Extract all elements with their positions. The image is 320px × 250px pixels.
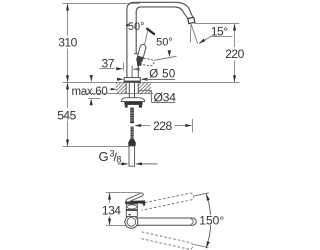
threaded shank through counter (128, 82, 130, 98)
dimension 545 line (66, 82, 69, 146)
threaded stud lower (131, 127, 134, 140)
body centerline (131, 66, 133, 81)
arc arrow tick near pipe for 50 deg upper (125, 24, 128, 27)
extension line outlet level right (194, 23, 239, 25)
dashed spout rotated down (140, 232, 193, 250)
inner cap line (191, 219, 194, 224)
dimension 134 (108, 193, 111, 226)
leader stroke for 50 deg upper (146, 28, 154, 34)
label G 3/8 (99, 149, 122, 165)
dark band (126, 209, 137, 211)
spout pipe inner contour (136, 7, 188, 54)
small dark dot (129, 214, 131, 215)
lever base dark bar (125, 200, 145, 205)
dimension 37 (99, 56, 140, 70)
body widening below lever (134, 54, 138, 78)
spout axis extension lines (195, 193, 209, 196)
spout pipe outer contour (127, 2, 193, 77)
counter slab bottom line (84, 93, 153, 95)
svg-text:Ø34: Ø34 (154, 90, 177, 104)
svg-text:max.60: max.60 (72, 86, 108, 98)
max60 bottom reference line (88, 98, 101, 100)
dimension 220 line (233, 24, 236, 83)
lever boss dark (137, 61, 141, 66)
dashed spout rotated up (140, 193, 194, 211)
threaded stud upper (130, 108, 134, 124)
closed lever axis line (154, 56, 176, 60)
connection nipple cone (128, 139, 135, 146)
extension line bottom of spout (106, 225, 140, 227)
thin lever axis line up from pivot (140, 31, 147, 65)
swivel arc 150 degrees (205, 193, 211, 249)
cartridge oval (127, 205, 136, 209)
lever handle dashed (closed position) (140, 58, 155, 66)
dimension 228 (134, 119, 192, 133)
lever handle solid (open position) (136, 44, 146, 63)
svg-text:310: 310 (58, 35, 77, 49)
label D34 with stepped leader (138, 90, 176, 104)
small arrow into hatching (110, 88, 113, 90)
angle reference lines below outlet (189, 24, 192, 43)
svg-text:50°: 50° (128, 21, 145, 33)
svg-text:50°: 50° (156, 37, 173, 49)
svg-text:220: 220 (225, 47, 244, 61)
svg-text:8: 8 (116, 155, 121, 165)
svg-text:545: 545 (57, 108, 76, 122)
label 15 degrees with leader (198, 25, 233, 45)
counter hatching right (130, 82, 160, 94)
svg-text:Ø 50: Ø 50 (149, 69, 176, 81)
body block bottom view (126, 204, 137, 217)
connection tube G3/8 (129, 146, 135, 166)
extension line countertop (63, 82, 240, 84)
svg-text:134: 134 (102, 203, 121, 217)
svg-text:228: 228 (153, 119, 172, 133)
dimension 310 line (66, 4, 69, 83)
dimension D50 arrows at flange (117, 78, 148, 81)
spout tube side view solid (135, 218, 196, 225)
counter hatching left (106, 82, 136, 94)
extension line top of body (106, 192, 140, 194)
shank hole edges through counter (125, 82, 127, 94)
max60 bottom arrow (90, 98, 93, 105)
svg-text:G: G (99, 149, 109, 164)
max60 top arrow (90, 75, 93, 82)
down arrow for 50 deg lower (168, 50, 171, 57)
tube diameter arrows (118, 162, 158, 165)
extension line top (spout top level) (63, 3, 141, 5)
lever paddle side view (126, 192, 144, 202)
extension line hose end (63, 146, 130, 148)
aerator at spout tip (188, 17, 195, 23)
pivot circle inner (127, 218, 136, 227)
pivot circle outer (125, 215, 138, 228)
base flange (124, 78, 140, 83)
mounting nut dark bar (124, 102, 142, 105)
svg-text:150°: 150° (199, 214, 224, 228)
nut legs (125, 105, 128, 108)
mounting dome washer (121, 98, 145, 102)
